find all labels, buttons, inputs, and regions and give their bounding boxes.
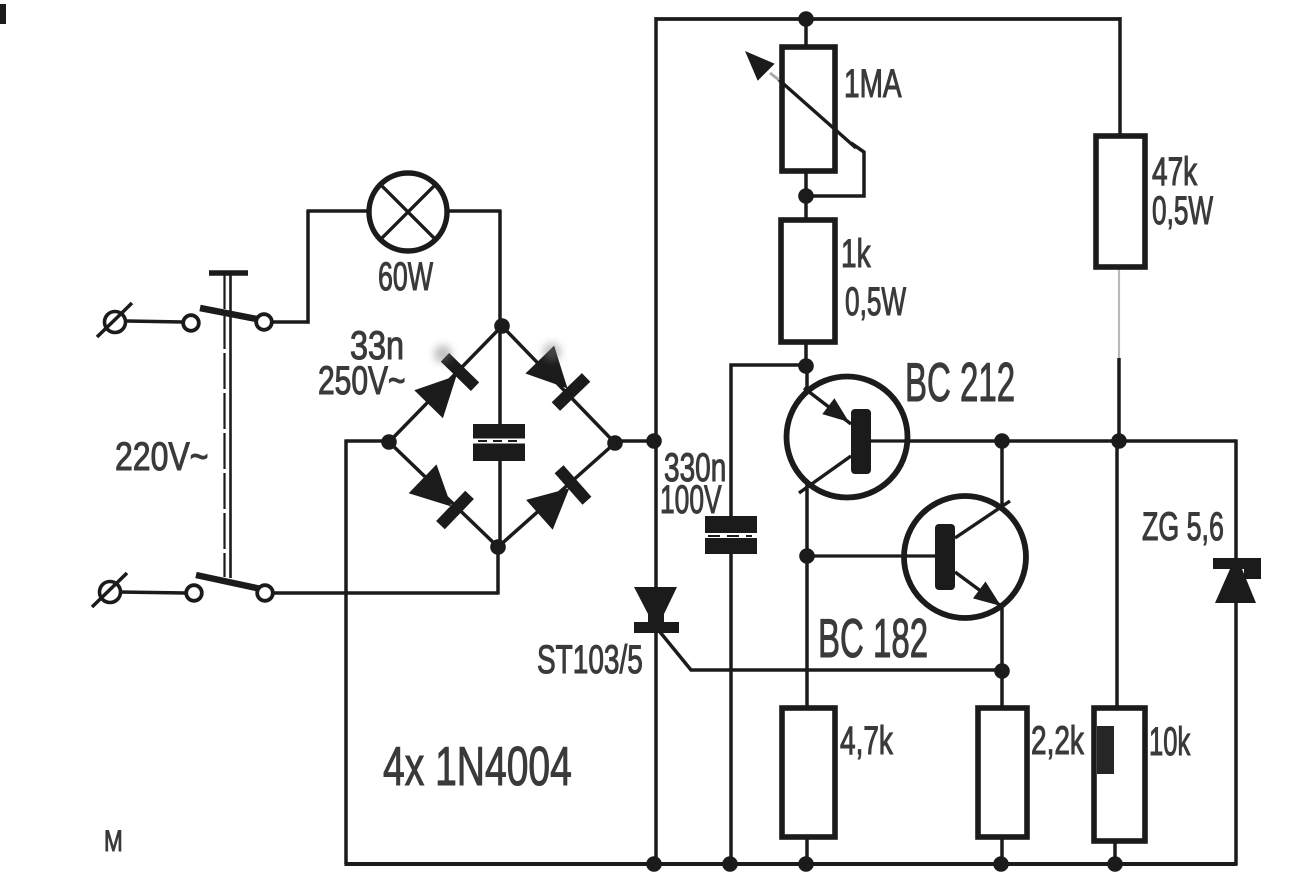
wire top rail: [654, 17, 1121, 21]
wire bridge left vertex to drop: [346, 439, 389, 443]
potentiometer 1MA wiper gray tail: [770, 73, 779, 80]
transistor Q1 base bar: [851, 409, 871, 474]
node base rail / Q2 collector: [994, 433, 1010, 449]
svg-text:4,7k: 4,7k: [840, 719, 894, 763]
transistor Q2 base bar: [935, 524, 955, 590]
transistor Q1 collector lead: [799, 456, 851, 493]
node bottom rail / 10k: [1107, 856, 1123, 872]
wire 4.7k to bottom rail: [805, 838, 809, 864]
node Q2 base / 4.7k: [799, 548, 815, 564]
wire lower switch to bridge bottom vertex, horizontal: [272, 591, 498, 595]
resistor 2.2k: [978, 708, 1027, 837]
wire bridge right vertex to left main vertical: [615, 439, 656, 443]
wire bottom rail: [344, 862, 1236, 866]
switch lower pole: input terminal: [92, 573, 127, 607]
node bridge bottom vertex: [490, 539, 506, 555]
node base rail / 47k / 10k: [1111, 433, 1127, 449]
resistor 47k 0.5W: [1096, 136, 1145, 267]
svg-text:ZG 5,6: ZG 5,6: [1142, 505, 1224, 550]
node top rail / pot: [798, 11, 814, 27]
wire upper terminal to switch: [125, 321, 183, 322]
wire zener branch down: [1234, 439, 1238, 560]
svg-text:4x 1N4004: 4x 1N4004: [383, 737, 572, 798]
wire lamp riser vertical: [306, 211, 310, 324]
zener diode ZG 5,6: [1213, 558, 1261, 603]
wire left drop from bridge left vertex to bottom rail: [344, 439, 348, 864]
wire 47k lower lead to node: [1117, 358, 1121, 442]
wire zener to bottom rail: [1234, 601, 1238, 866]
wire base rail BC212 to zener corner: [868, 439, 1236, 443]
svg-text:10k: 10k: [1149, 720, 1190, 764]
resistor 10k: [1094, 708, 1145, 841]
wire bridge upper-right branch: [502, 326, 615, 443]
node bottom rail / thyristor: [646, 856, 662, 872]
switch upper pole: left contact: [183, 315, 199, 331]
wire 330n cap to bottom rail: [729, 553, 733, 864]
transistor Q2 emitter lead (arrow out): [955, 572, 1001, 606]
svg-text:100V: 100V: [660, 478, 722, 523]
wire BC182 emitter drop to 2.2k: [1000, 606, 1004, 707]
resistor 1k 0.5W: [781, 220, 835, 342]
svg-text:BC 212: BC 212: [905, 351, 1015, 413]
node bottom rail / 4.7k: [798, 856, 814, 872]
wire top rail right corner down to 47k: [1118, 17, 1122, 135]
svg-text:ST103/5: ST103/5: [537, 638, 643, 682]
node bridge top vertex: [494, 318, 510, 334]
diode D1 bridge upper-left (1N4004): [414, 353, 479, 418]
node bridge to anode rail: [646, 433, 662, 449]
node pot wiper / 1k: [798, 188, 814, 204]
wire bridge cap top lead: [498, 326, 502, 425]
resistor 10k inner dark smudge: [1097, 726, 1114, 774]
wire 330n branch top corner: [731, 365, 806, 517]
potentiometer 1MA wiper diagonal: [778, 79, 856, 148]
wire pot wiper bend: [806, 143, 864, 196]
wire bridge cap bottom lead: [498, 460, 502, 547]
wire thyristor gate: [660, 632, 1002, 670]
wire emitter chain vertical (1k junction to BC182 base junction to 4.7k): [805, 366, 809, 707]
switch mechanical link T-bar: [209, 270, 248, 276]
wire switch to lamp riser horizontal: [272, 320, 310, 324]
node bridge left vertex: [381, 434, 397, 450]
wire bridge lower-left branch: [389, 442, 498, 547]
node gate / 2.2k: [994, 663, 1010, 679]
svg-text:220V~: 220V~: [115, 434, 208, 479]
capacitor 33n 250V (bridge snubber): [473, 424, 525, 461]
switch mechanical link rods: [225, 273, 231, 578]
wire 1k to junction: [804, 342, 808, 366]
wire lower terminal to switch: [119, 592, 186, 593]
transistor Q2 base lead: [807, 554, 936, 557]
wire lamp right lead: [448, 209, 502, 213]
svg-text:1MA: 1MA: [844, 62, 902, 106]
transistor Q2 BC 182 (NPN) body: [904, 496, 1026, 618]
svg-text:0,5W: 0,5W: [1152, 189, 1213, 234]
diode D3 bridge lower-left (1N4004): [409, 464, 474, 529]
wire junction to 1k: [804, 196, 808, 220]
node bottom rail / 330n: [722, 856, 738, 872]
capacitor 330n 100V: [705, 516, 757, 554]
scan ghost smudge above D1 bar: [434, 345, 452, 363]
wire bridge upper-left branch: [389, 326, 502, 442]
svg-text:M: M: [104, 824, 123, 858]
wire top rail to pot: [804, 19, 808, 48]
switch upper pole: input terminal: [97, 303, 132, 337]
wire pot to junction: [804, 171, 808, 196]
scan ghost smudge above D2 bar: [543, 343, 561, 361]
node 1k / 330n / Q1 emitter: [798, 358, 814, 374]
diode D2 bridge upper-right (1N4004): [525, 346, 590, 411]
potentiometer 1MA body: [782, 47, 835, 171]
switch lower pole: arm: [196, 575, 261, 589]
wire 47k faded lower lead: [1118, 268, 1120, 360]
svg-text:BC 182: BC 182: [818, 607, 928, 669]
wire 2.2k to bottom rail: [1000, 838, 1004, 864]
wire lamp to bridge top vertex: [498, 211, 502, 326]
scan artifact top-left corner: [0, 4, 6, 24]
thyristor ST103/5: [634, 587, 679, 633]
wire lamp left lead: [306, 209, 368, 213]
svg-text:0,5W: 0,5W: [845, 280, 906, 325]
svg-text:1k: 1k: [841, 232, 871, 276]
potentiometer 1MA arrowhead: [745, 51, 775, 81]
switch lower pole: left contact: [186, 585, 202, 601]
switch upper pole: arm: [200, 308, 262, 320]
wire BC182 collector riser: [1000, 441, 1004, 508]
resistor 4.7k: [782, 708, 835, 837]
transistor Q1 BC 212 (PNP) body: [787, 377, 908, 498]
svg-text:250V~: 250V~: [318, 359, 406, 403]
transistor Q1 base lead inside: [869, 439, 908, 442]
wire left main vertical (anode rail): [654, 17, 658, 865]
lamp 60W: [369, 173, 447, 251]
node bottom rail / 2.2k: [993, 856, 1009, 872]
wire bridge bottom vertex drop: [496, 547, 500, 595]
transistor Q1 emitter lead (arrow to bar): [804, 388, 851, 424]
svg-text:2,2k: 2,2k: [1031, 719, 1085, 763]
node bridge right vertex: [607, 435, 623, 451]
transistor Q2 collector lead: [955, 501, 1010, 538]
diode D4 bridge lower-right (1N4004): [526, 465, 591, 530]
wire 10k to bottom rail: [1113, 843, 1117, 864]
wire bridge lower-right branch: [498, 443, 615, 547]
switch upper pole: right contact: [256, 314, 272, 330]
wire node to 10k: [1115, 442, 1119, 707]
svg-text:60W: 60W: [378, 255, 433, 300]
switch lower pole: right contact: [257, 585, 273, 601]
